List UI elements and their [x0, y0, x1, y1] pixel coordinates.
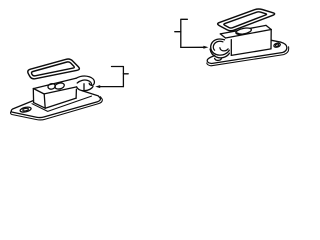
base plate thickness contour (left figure) — [10, 97, 102, 120]
base plate thickness contour (right figure) — [207, 47, 289, 66]
leader arrow (left figure) — [99, 86, 123, 88]
bolt hole inner rim in left lobe (left figure) — [23, 108, 29, 111]
block bottom-front edge — [231, 49, 271, 56]
arrowhead (right figure) — [203, 46, 208, 49]
base plate top outline (right figure) — [207, 40, 287, 63]
base plate top outline (left figure) — [11, 91, 100, 118]
pad edges under block (left figure) — [32, 96, 92, 111]
recess right lobe ellipse on block top (left figure) — [54, 82, 65, 90]
hook inner arc — [77, 80, 91, 85]
block front-top edge — [44, 87, 76, 94]
rubber loop below hook — [77, 86, 93, 90]
leader arrow (right figure) — [181, 46, 204, 48]
arrowhead (left figure) — [95, 85, 100, 88]
callout tick (left figure) — [123, 73, 128, 75]
hook boss (left figure, right end of block) — [76, 76, 94, 91]
bushing bore arc — [220, 48, 228, 51]
block left short top edge — [220, 34, 225, 38]
block bottom-right edge — [45, 98, 76, 108]
strap outer arc — [211, 39, 230, 55]
recess depth crescent (right figure) — [237, 33, 245, 34]
gasket inner ring (right figure) — [224, 12, 267, 28]
block left vertical edge — [32, 89, 34, 103]
bolt hole outer rim in left lobe (left figure) — [20, 106, 32, 113]
cylinder boss (right figure, left end of block) — [210, 39, 229, 58]
callout tick (right figure) — [175, 31, 181, 33]
block strap-side vertical edge — [230, 40, 232, 56]
mount block (right figure) — [220, 25, 271, 55]
block front-top edge — [226, 30, 272, 39]
block near vertical edge — [44, 94, 45, 108]
block right short top edge — [266, 25, 271, 29]
block top-back edge — [33, 78, 76, 88]
gasket inner ring (left figure) — [31, 62, 74, 76]
block top-back edge — [220, 25, 266, 34]
recess left lobe ellipse on block top (left figure) — [47, 83, 55, 90]
bushing outer bottom arc — [210, 49, 229, 58]
recess ellipse on block top (right figure) — [235, 27, 252, 36]
strap inner arc — [213, 41, 223, 50]
mount block (left figure) — [33, 78, 76, 108]
block right vertical edge — [75, 89, 77, 98]
gasket outer ring (left figure) — [28, 59, 80, 79]
callout bracket (right figure) — [181, 19, 188, 47]
bolt hole inner rim in right tab (right figure) — [275, 44, 279, 47]
block right vertical edge — [270, 30, 272, 49]
block left short top edge — [33, 89, 44, 95]
boss vertical edge — [83, 84, 85, 91]
bolt hole in left lobe, partly hidden (right figure) — [215, 58, 222, 60]
bolt hole outer rim in right tab (right figure) — [273, 43, 280, 48]
hook outer arc — [76, 76, 94, 85]
gasket outer ring (right figure) — [218, 9, 275, 31]
block bottom-front edge — [34, 103, 46, 109]
callout bracket (left figure) — [112, 67, 124, 87]
